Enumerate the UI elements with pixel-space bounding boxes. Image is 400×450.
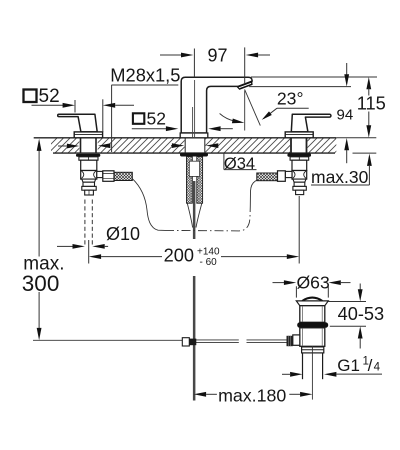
upper reference line from spout top — [251, 76, 377, 78]
svg-text:M28x1,5: M28x1,5 — [110, 64, 180, 85]
G1 1/4 underline — [337, 373, 383, 375]
left valve tee inner arc left — [82, 171, 84, 178]
svg-text:Ø34: Ø34 — [224, 155, 255, 173]
left valve collar — [79, 157, 98, 160]
Ø63 dimension left arrow — [273, 282, 285, 284]
svg-text:97: 97 — [208, 46, 228, 66]
left valve lower stub — [83, 182, 95, 186]
40-53 bottom arrow — [358, 326, 363, 338]
max.30 top arrow (up against deck underside) — [367, 154, 372, 166]
svg-text:40-53: 40-53 — [338, 304, 385, 324]
dashed Ø10 tube line left — [84, 200, 86, 247]
200 dimension right arrow — [287, 254, 299, 259]
left valve collar split line — [87, 157, 89, 160]
200 dimension line right segment — [221, 256, 287, 258]
spout washer under deck — [180, 153, 208, 157]
neck inner contour lines — [302, 307, 322, 322]
left valve tailpiece — [85, 190, 94, 195]
Ø10 dimension right arrow — [92, 244, 104, 249]
200 dimension left arrow — [89, 254, 101, 259]
deck bottom line — [53, 152, 335, 154]
svg-text:max.180: max.180 — [218, 386, 286, 406]
left valve tee housing — [81, 171, 97, 180]
tailpipe wall right — [322, 353, 324, 379]
deck hatched section right of right valve — [308, 138, 337, 152]
23 degree leader line — [264, 108, 278, 118]
dimension 94 top arrow — [346, 63, 348, 75]
dimension 97 right arrow — [246, 53, 258, 58]
pull rod line inside spout right — [194, 80, 196, 138]
svg-text:115: 115 — [357, 93, 386, 114]
pull rod line inside spout left — [192, 107, 194, 138]
square symbol for center 52 label — [133, 113, 144, 124]
pop-up waste cap flange — [296, 301, 328, 306]
M28x1,5 leader arrow to shank — [98, 143, 110, 148]
G1 1/4 left arrow at pipe — [290, 372, 302, 377]
left valve braided hose — [114, 172, 132, 180]
svg-text:52: 52 — [39, 86, 60, 107]
left valve outlet stub — [97, 171, 103, 177]
deck hatched section between left valve and spout — [98, 138, 185, 152]
pop-up waste neck — [300, 306, 325, 323]
right valve tee housing — [292, 171, 307, 180]
svg-text:52: 52 — [147, 108, 166, 128]
left handle lever — [58, 114, 98, 132]
23 degree underline — [277, 107, 309, 109]
left handle base mid line — [74, 133, 102, 135]
pop-up waste body — [300, 328, 325, 347]
svg-text:94: 94 — [337, 107, 354, 124]
right valve lower stub — [294, 182, 305, 186]
right handle lever — [291, 114, 331, 132]
svg-text:Ø63: Ø63 — [297, 272, 330, 292]
left 52 extension line right — [102, 99, 104, 132]
linkage clamp block — [189, 339, 196, 346]
left valve through-deck tube wall right — [95, 138, 97, 153]
left 52 dimension line left part with arrow — [32, 104, 64, 106]
left flexible hose curve solid — [133, 179, 166, 231]
M28x1,5 leader vertical line — [111, 85, 113, 152]
deck hatched section between spout and right valve — [205, 138, 290, 152]
max.300 bottom arrow — [37, 328, 42, 340]
drain centerline — [311, 346, 313, 400]
deck top surface line — [34, 137, 337, 139]
pop-up rod knurled knob — [287, 336, 293, 346]
spout threaded shank left bar — [187, 157, 193, 204]
dimension 97 line left part with arrow — [160, 54, 181, 56]
pop-up waste O-ring — [297, 322, 328, 328]
lower reference line from spout outlet — [249, 86, 351, 88]
200 dimension extension line at left valve — [88, 240, 90, 264]
40-53 reference line bottom — [330, 325, 366, 327]
Ø63 dimension right arrow — [328, 280, 340, 285]
left valve through-deck tube wall left — [80, 138, 82, 153]
svg-text:300: 300 — [22, 271, 60, 296]
center 52 dimension left arrow — [132, 128, 166, 130]
right valve tailpiece — [296, 190, 304, 194]
dimension 97 extension line right — [244, 47, 246, 84]
G1 1/4 arrow to tailpipe — [324, 372, 336, 377]
svg-text:Ø10: Ø10 — [106, 224, 140, 244]
right valve washer under deck — [287, 153, 311, 156]
max.300 top arrow — [37, 139, 42, 151]
right handle base mid line — [285, 133, 313, 135]
dimension 115 line lower segment — [368, 112, 370, 127]
spout through-deck tube wall right — [204, 138, 206, 153]
svg-text:+140: +140 — [197, 246, 220, 257]
deck top reference line extension right — [336, 137, 376, 139]
pop-up rod stub housing — [293, 335, 300, 345]
knurl lines — [289, 336, 291, 346]
horizontal pop-up linkage rod left segment — [186, 340, 239, 343]
dimension 94 bottom arrow — [344, 138, 349, 150]
Ø63 extension line left — [295, 286, 297, 297]
right valve through-deck tube wall right — [306, 138, 308, 153]
left valve tee inner arc right — [94, 171, 96, 178]
right valve outlet stub — [285, 171, 292, 177]
Ø10 dimension left arrow — [57, 245, 73, 247]
spout body and arm outline — [181, 77, 252, 133]
right valve shoulder — [293, 179, 306, 182]
max.300 dimension line with arrows — [38, 150, 40, 329]
pop-up waste bottom ring — [302, 347, 324, 353]
right flexible hose curve solid — [250, 180, 256, 206]
pop-up pull rod upper segment — [193, 181, 196, 239]
left valve tailpiece split — [88, 190, 90, 195]
max.30 underline — [311, 184, 369, 186]
Ø34 leader line to deck — [223, 153, 225, 170]
M28x1,5 underline — [111, 84, 178, 86]
svg-text:/: / — [368, 356, 373, 375]
right valve body — [292, 160, 307, 170]
spout through-deck tube wall left — [184, 138, 186, 153]
angle arc with arrow — [220, 114, 236, 122]
dimension 97 extension line left — [193, 49, 195, 78]
spout plinth base — [180, 133, 208, 138]
hose loop dash-dot curve — [165, 206, 250, 231]
right valve tee inner arc right — [304, 171, 306, 178]
dimension 115 bottom arrow — [366, 125, 371, 137]
svg-text:G1: G1 — [337, 356, 360, 375]
spout outlet aerator inner stripe — [239, 83, 251, 88]
left valve body — [81, 160, 97, 170]
spout threaded shank right bar — [197, 157, 203, 204]
plumb vertical reference line at spout outlet — [244, 91, 246, 131]
water stream line at 23 degrees — [245, 89, 261, 125]
pop-up waste cap dome — [302, 298, 322, 301]
40-53 reference line top — [328, 301, 366, 303]
left valve bottom nut — [82, 186, 96, 190]
right valve hose nut — [278, 171, 286, 182]
svg-text:200: 200 — [164, 246, 194, 266]
horizontal pop-up linkage rod right segment — [247, 340, 287, 343]
tailpipe wall left — [302, 353, 304, 379]
deck hatched section left of left valve — [51, 138, 79, 152]
dashed Ø10 tube line right — [91, 200, 93, 247]
Ø34 arrow right — [206, 143, 218, 148]
40-53 top arrow — [359, 284, 361, 291]
right valve collar — [290, 157, 309, 160]
spout shank inner window — [189, 161, 199, 176]
max.180 right arrow at drain centerline — [289, 393, 300, 395]
bottom ring mid line — [302, 349, 324, 351]
spout outlet aerator beak — [237, 80, 253, 90]
right valve bottom nut — [293, 186, 306, 190]
funnel line under shank right — [196, 203, 202, 227]
left valve deck hole arrow left — [58, 145, 67, 147]
Ø34 underline — [224, 169, 257, 171]
dimension 115 top arrow — [366, 77, 371, 89]
Ø34 arrow left (at spout shank in deck) — [171, 145, 173, 147]
right valve collar split line — [298, 157, 300, 160]
extension line below right valve to 200 dim — [298, 196, 300, 264]
200 dimension line left segment — [101, 256, 162, 258]
23 degree leader arrow — [262, 111, 272, 120]
left valve hose nut facet line — [103, 173, 114, 178]
body inner contour lines — [302, 329, 322, 346]
Ø63 extension line right — [327, 286, 329, 297]
svg-text:- 60: - 60 — [200, 257, 218, 268]
pop-up pull rod lower segment — [193, 276, 196, 401]
right valve through-deck tube wall left — [290, 138, 292, 153]
left valve hose nut — [103, 171, 114, 182]
left handle escutcheon base — [74, 132, 102, 138]
svg-text:max.30: max.30 — [311, 167, 369, 187]
left valve shoulder — [82, 179, 96, 182]
square symbol for left 52 label — [24, 90, 37, 103]
svg-text:23°: 23° — [277, 89, 304, 109]
left 52 extension line left — [74, 100, 76, 113]
max.180 left arrow at rod — [194, 392, 206, 397]
linkage clamp bracket — [182, 338, 189, 346]
funnel line under shank left — [187, 203, 192, 227]
floor reference line for max.300 — [33, 339, 185, 341]
center 52 dimension right arrow — [208, 126, 220, 131]
left valve washer under deck — [76, 154, 100, 157]
right handle escutcheon base — [285, 132, 313, 138]
svg-text:4: 4 — [374, 361, 381, 373]
left 52 right arrow — [103, 103, 115, 108]
right valve tee inner arc left — [293, 171, 295, 178]
right valve braided hose — [257, 173, 278, 181]
deck bottom reference line extension right — [353, 152, 377, 154]
